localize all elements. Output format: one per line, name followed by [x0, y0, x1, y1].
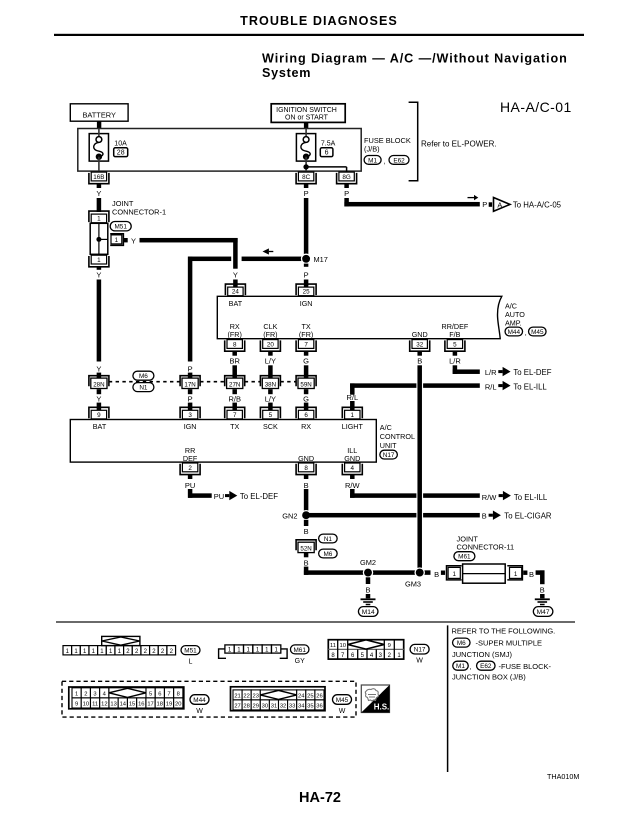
- svg-text:14: 14: [120, 702, 127, 708]
- svg-text:8G: 8G: [342, 174, 351, 181]
- svg-text:GY: GY: [295, 658, 305, 665]
- svg-text:Y: Y: [96, 394, 101, 403]
- svg-text:9: 9: [97, 412, 101, 419]
- svg-text:24: 24: [298, 694, 305, 700]
- svg-text:CONNECTOR-11: CONNECTOR-11: [457, 543, 515, 552]
- svg-text:28: 28: [117, 150, 125, 157]
- svg-text:28N: 28N: [93, 382, 104, 389]
- svg-text:Y: Y: [131, 236, 136, 245]
- svg-text:5: 5: [269, 412, 273, 419]
- svg-text:9: 9: [388, 643, 391, 649]
- svg-text:PU: PU: [185, 481, 195, 490]
- svg-text:RX: RX: [301, 422, 311, 431]
- svg-text:20: 20: [267, 342, 275, 349]
- svg-text:16B: 16B: [93, 174, 104, 181]
- svg-text:18: 18: [157, 702, 163, 708]
- svg-text:F/B: F/B: [449, 330, 460, 339]
- svg-text:B: B: [304, 527, 309, 536]
- svg-text:M61: M61: [293, 647, 306, 654]
- svg-text:3: 3: [188, 412, 192, 419]
- svg-text:GND: GND: [412, 330, 428, 339]
- svg-text:(FR): (FR): [263, 330, 277, 339]
- svg-text:M1: M1: [368, 157, 377, 164]
- svg-text:33: 33: [289, 704, 295, 710]
- svg-text:59N: 59N: [300, 382, 311, 389]
- svg-text:(FR): (FR): [299, 330, 313, 339]
- svg-text:32: 32: [280, 704, 286, 710]
- svg-text:M44: M44: [193, 697, 206, 704]
- svg-text:B: B: [304, 481, 309, 490]
- svg-text:B: B: [365, 586, 370, 595]
- svg-text:4: 4: [351, 465, 355, 472]
- svg-text:26: 26: [316, 694, 322, 700]
- svg-text:BR: BR: [229, 357, 240, 366]
- svg-text:25: 25: [303, 289, 311, 296]
- svg-text:L/Y: L/Y: [265, 394, 276, 403]
- svg-text:10: 10: [83, 702, 89, 708]
- svg-text:8C: 8C: [302, 174, 311, 181]
- svg-text:,: ,: [384, 159, 386, 166]
- svg-text:35: 35: [307, 704, 313, 710]
- svg-text:P: P: [304, 189, 309, 198]
- svg-text:22: 22: [243, 694, 249, 700]
- svg-text:To EL-CIGAR: To EL-CIGAR: [504, 511, 552, 520]
- svg-text:N1: N1: [324, 536, 333, 543]
- svg-text:REFER TO THE FOLLOWING.: REFER TO THE FOLLOWING.: [452, 627, 556, 636]
- svg-text:7: 7: [233, 412, 237, 419]
- svg-text:6: 6: [325, 150, 329, 157]
- svg-text:IGN: IGN: [184, 422, 197, 431]
- svg-text:Y: Y: [96, 364, 101, 373]
- svg-text:(J/B): (J/B): [364, 145, 380, 154]
- svg-text:To EL-ILL: To EL-ILL: [514, 493, 548, 502]
- svg-text:1: 1: [452, 571, 456, 578]
- svg-text:N1: N1: [139, 385, 148, 392]
- svg-text:P: P: [188, 394, 193, 403]
- svg-text:ON or START: ON or START: [285, 115, 329, 122]
- svg-text:THA010M: THA010M: [547, 772, 579, 781]
- svg-text:M45: M45: [531, 329, 544, 336]
- svg-text:B: B: [434, 570, 439, 579]
- svg-text:M14: M14: [362, 609, 375, 616]
- svg-text:W: W: [416, 658, 423, 665]
- svg-text:25: 25: [307, 694, 313, 700]
- svg-text:To EL-DEF: To EL-DEF: [240, 492, 278, 501]
- svg-text:Y: Y: [96, 189, 101, 198]
- svg-text:30: 30: [262, 704, 268, 710]
- svg-text:GND: GND: [298, 454, 314, 463]
- svg-text:IGN: IGN: [300, 299, 313, 308]
- svg-text:N17: N17: [383, 452, 395, 459]
- svg-text:23: 23: [253, 694, 259, 700]
- svg-text:P: P: [344, 189, 349, 198]
- svg-text:31: 31: [271, 704, 277, 710]
- svg-text:G: G: [303, 394, 309, 403]
- svg-text:TX: TX: [230, 422, 239, 431]
- svg-text:To EL-ILL: To EL-ILL: [513, 382, 547, 391]
- svg-text:Wiring Diagram — A/C —/Without: Wiring Diagram — A/C —/Without Navigatio…: [262, 52, 568, 66]
- svg-text:UNIT: UNIT: [380, 441, 397, 450]
- svg-text:32: 32: [416, 342, 424, 349]
- svg-text:G: G: [303, 357, 309, 366]
- svg-text:A: A: [497, 201, 502, 210]
- svg-text:M47: M47: [537, 609, 550, 616]
- svg-text:L/R: L/R: [449, 357, 461, 366]
- svg-text:B: B: [482, 511, 487, 520]
- svg-text:2: 2: [84, 691, 87, 697]
- svg-text:M1: M1: [456, 663, 465, 670]
- svg-text:CONNECTOR-1: CONNECTOR-1: [112, 207, 166, 216]
- svg-text:FUSE BLOCK: FUSE BLOCK: [364, 136, 411, 145]
- svg-text:1: 1: [115, 237, 119, 244]
- svg-text:8: 8: [177, 691, 180, 697]
- svg-text:M44: M44: [508, 329, 521, 336]
- svg-text:BAT: BAT: [93, 422, 107, 431]
- svg-text:P: P: [188, 364, 193, 373]
- svg-text:34: 34: [298, 704, 305, 710]
- svg-text:11: 11: [330, 643, 336, 649]
- svg-text:13: 13: [110, 702, 116, 708]
- svg-text:To EL-DEF: To EL-DEF: [513, 368, 551, 377]
- svg-text:To HA-A/C-05: To HA-A/C-05: [513, 200, 562, 209]
- svg-text:P: P: [304, 271, 309, 280]
- svg-text:LIGHT: LIGHT: [342, 422, 364, 431]
- svg-text:M51: M51: [184, 648, 197, 655]
- svg-text:BATTERY: BATTERY: [82, 110, 115, 119]
- svg-text:IGNITION SWITCH: IGNITION SWITCH: [276, 107, 337, 114]
- svg-text:M17: M17: [314, 255, 328, 264]
- svg-text:B: B: [540, 586, 545, 595]
- svg-text:6: 6: [304, 412, 308, 419]
- svg-text:-FUSE BLOCK-: -FUSE BLOCK-: [499, 662, 552, 671]
- svg-text:1: 1: [75, 691, 78, 697]
- svg-text:L/Y: L/Y: [265, 357, 276, 366]
- svg-text:11: 11: [92, 702, 98, 708]
- svg-text:16: 16: [138, 702, 144, 708]
- svg-text:,: ,: [525, 330, 527, 337]
- svg-text:JUNCTION BOX (J/B): JUNCTION BOX (J/B): [452, 672, 526, 681]
- svg-text:27: 27: [234, 704, 240, 710]
- svg-text:CONTROL: CONTROL: [380, 432, 415, 441]
- svg-text:R/L: R/L: [485, 382, 497, 391]
- svg-text:27N: 27N: [229, 382, 240, 389]
- svg-text:1: 1: [351, 412, 355, 419]
- svg-text:6: 6: [158, 691, 161, 697]
- svg-text:N17: N17: [414, 647, 426, 654]
- svg-text:M6: M6: [457, 640, 466, 647]
- svg-text:HA-72: HA-72: [299, 790, 341, 806]
- svg-text:52N: 52N: [300, 546, 311, 553]
- svg-text:B: B: [304, 559, 309, 568]
- svg-text:10: 10: [339, 643, 345, 649]
- svg-text:PU: PU: [214, 492, 224, 501]
- svg-text:1: 1: [97, 216, 101, 223]
- svg-text:M51: M51: [114, 224, 127, 231]
- svg-text:H.S.: H.S.: [374, 703, 390, 712]
- svg-text:9: 9: [75, 702, 78, 708]
- svg-text:21: 21: [234, 694, 240, 700]
- svg-text:P: P: [482, 200, 487, 209]
- svg-text:3: 3: [93, 691, 96, 697]
- svg-text:17: 17: [147, 702, 153, 708]
- svg-text:GM2: GM2: [360, 558, 376, 567]
- svg-text:E62: E62: [393, 157, 405, 164]
- svg-text:29: 29: [253, 704, 259, 710]
- svg-text:-SUPER MULTIPLE: -SUPER MULTIPLE: [476, 639, 543, 648]
- svg-text:1: 1: [97, 257, 101, 264]
- svg-text:R/L: R/L: [346, 393, 358, 402]
- svg-text:E62: E62: [480, 663, 492, 670]
- svg-text:DEF: DEF: [183, 454, 198, 463]
- svg-text:GM3: GM3: [405, 580, 421, 589]
- svg-text:Y: Y: [233, 271, 238, 280]
- svg-text:M6: M6: [323, 551, 332, 558]
- svg-text:20: 20: [175, 702, 181, 708]
- svg-text:15: 15: [129, 702, 135, 708]
- svg-text:28: 28: [243, 704, 249, 710]
- svg-text:AMP.: AMP.: [505, 319, 522, 328]
- svg-text:38N: 38N: [265, 382, 276, 389]
- svg-text:TROUBLE DIAGNOSES: TROUBLE DIAGNOSES: [240, 14, 398, 28]
- svg-text:BAT: BAT: [229, 299, 243, 308]
- svg-text:8: 8: [304, 465, 308, 472]
- svg-text:8: 8: [233, 342, 237, 349]
- svg-text:12: 12: [101, 702, 107, 708]
- svg-text:M6: M6: [139, 373, 148, 380]
- svg-text:R/W: R/W: [345, 481, 361, 490]
- svg-text:24: 24: [232, 289, 240, 296]
- svg-text:B: B: [529, 570, 534, 579]
- svg-text:(FR): (FR): [228, 330, 242, 339]
- svg-text:1: 1: [514, 571, 518, 578]
- svg-text:,: ,: [470, 664, 472, 671]
- svg-text:W: W: [339, 708, 346, 715]
- svg-text:System: System: [262, 66, 311, 80]
- svg-text:L/R: L/R: [485, 368, 497, 377]
- svg-text:HA-A/C-01: HA-A/C-01: [500, 99, 572, 115]
- svg-text:10A: 10A: [114, 141, 127, 148]
- svg-text:5: 5: [149, 691, 152, 697]
- svg-text:JUNCTION (SMJ): JUNCTION (SMJ): [452, 650, 512, 659]
- svg-text:7: 7: [167, 691, 170, 697]
- svg-text:B: B: [417, 357, 422, 366]
- svg-text:Y: Y: [96, 271, 101, 280]
- svg-text:M61: M61: [458, 554, 471, 561]
- svg-text:2: 2: [188, 465, 192, 472]
- svg-text:Refer to EL-POWER.: Refer to EL-POWER.: [421, 139, 497, 148]
- svg-text:5: 5: [453, 342, 457, 349]
- svg-text:7: 7: [304, 342, 308, 349]
- svg-text:W: W: [196, 708, 203, 715]
- svg-text:GN2: GN2: [282, 511, 297, 520]
- svg-text:17N: 17N: [184, 382, 195, 389]
- svg-text:36: 36: [316, 704, 322, 710]
- svg-text:R/B: R/B: [228, 394, 241, 403]
- svg-text:19: 19: [166, 702, 172, 708]
- svg-text:M45: M45: [336, 697, 349, 704]
- svg-text:GND: GND: [344, 454, 360, 463]
- svg-text:SCK: SCK: [263, 422, 278, 431]
- svg-text:A/C: A/C: [380, 423, 392, 432]
- svg-text:L: L: [189, 658, 193, 665]
- svg-text:7.5A: 7.5A: [321, 141, 336, 148]
- svg-text:R/W: R/W: [482, 493, 498, 502]
